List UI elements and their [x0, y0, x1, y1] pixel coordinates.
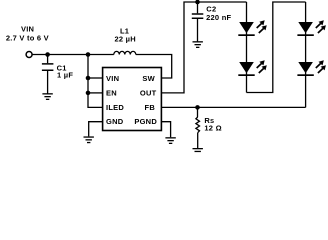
node: EN pin junction [86, 91, 91, 96]
LED D4 [297, 60, 326, 76]
ground (PGND) [165, 137, 175, 144]
capacitor C2 [192, 14, 204, 18]
svg-text:22 µH: 22 µH [114, 34, 135, 43]
svg-text:2.7 V to 6 V: 2.7 V to 6 V [6, 33, 49, 42]
wire: Rs branch upper [197, 107, 199, 117]
wire: EN pin stub [88, 92, 103, 94]
svg-text:PGND: PGND [134, 117, 157, 126]
wire: Rs to ground [197, 133, 199, 149]
ground (C2) [193, 41, 203, 48]
svg-text:220 nF: 220 nF [206, 13, 231, 22]
wire: OUT pin to top rail [161, 2, 246, 93]
LED D1 [238, 20, 266, 36]
wire: VIN pin stub [88, 77, 103, 79]
wire: FB to string 2 bottom [161, 106, 305, 108]
IC U1 [103, 68, 162, 131]
svg-text:VIN: VIN [106, 74, 119, 83]
node: C2 tap junction [195, 0, 200, 4]
node: C1 tap junction [45, 52, 50, 57]
svg-text:ILED: ILED [106, 103, 124, 112]
wire: C1 to ground [47, 71, 49, 94]
node: VIN pin junction [86, 76, 91, 81]
svg-text:EN: EN [106, 89, 117, 98]
svg-text:12 Ω: 12 Ω [204, 124, 221, 133]
wire: LED string 1 vertical [246, 2, 248, 93]
wire: GND pin to ground [89, 122, 103, 137]
wire: PGND to ground [161, 122, 170, 138]
LED D3 [297, 20, 326, 36]
ground (C1) [42, 93, 52, 100]
capacitor C1 [42, 64, 54, 70]
svg-text:GND: GND [106, 117, 124, 126]
wire: C2 to ground [197, 19, 199, 41]
svg-text:SW: SW [142, 74, 155, 83]
inductor L1 [114, 51, 136, 54]
ground (IC GND) [84, 136, 94, 143]
wire: left bus VIN/EN/ILED [88, 55, 103, 108]
ground (Rs) [193, 148, 203, 155]
node: bus tap junction [86, 52, 91, 57]
wire: C2 branch upper [197, 2, 199, 13]
wire: string1 bottom jog to rail 2 [247, 2, 306, 93]
wire: LED string 2 vertical [305, 2, 307, 107]
wire: L1 to SW corner [136, 55, 172, 79]
svg-text:1 µF: 1 µF [57, 71, 73, 80]
svg-text:OUT: OUT [140, 89, 157, 98]
wire: input rail from terminal to L1 [32, 54, 113, 56]
wire: C1 branch upper [47, 55, 49, 64]
resistor Rs zigzag [196, 117, 200, 133]
terminal VIN [26, 52, 32, 58]
node: Rs tap junction [195, 105, 200, 110]
svg-text:FB: FB [145, 103, 156, 112]
LED D2 [238, 60, 266, 76]
